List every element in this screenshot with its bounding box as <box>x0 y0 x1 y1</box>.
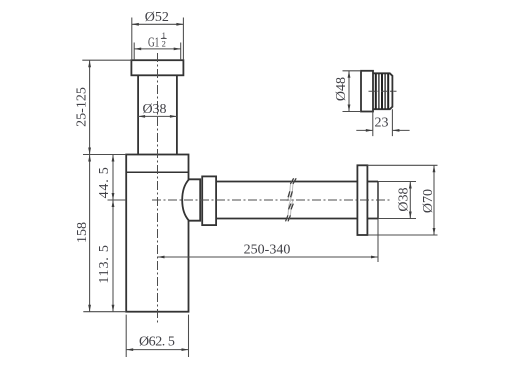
inlet tube ⌀38 left edge <box>137 75 139 154</box>
arrow ⌀38 left <box>138 115 145 118</box>
arrow 23 right <box>392 129 399 132</box>
top flange (nut) of trap <box>131 60 183 75</box>
extension at pipe centerline <box>108 199 127 201</box>
outlet dome <box>182 179 200 220</box>
arrow ⌀38 right <box>170 115 177 118</box>
trap body cup ⌀62.5 <box>126 155 188 312</box>
tailpiece thread outline <box>373 73 392 109</box>
arrow ⌀70 top <box>433 165 436 172</box>
arrow 25-125 top <box>88 60 91 67</box>
thread crest line 3 <box>381 74 383 109</box>
arrow 23 left <box>366 129 373 132</box>
arrow ⌀62.5 right <box>182 348 189 351</box>
pipe break mark lower faint <box>285 200 294 222</box>
svg-text:Ø38: Ø38 <box>396 187 411 211</box>
thread crest line 4 <box>384 74 386 109</box>
extension at body bottom <box>83 311 126 313</box>
pipe break mark upper faint <box>287 179 296 201</box>
arrow ⌀38 right bottom <box>409 212 412 219</box>
dim ⌀70 extension lines <box>367 165 437 235</box>
svg-text:Ø62. 5: Ø62. 5 <box>139 335 175 350</box>
dim G1½ line <box>134 48 181 50</box>
svg-text:25-125: 25-125 <box>75 87 90 127</box>
arrow 250-340 right <box>371 256 378 259</box>
dim ⌀48 extension lines <box>343 71 362 112</box>
pipe break mark lower dark ticks <box>286 204 294 222</box>
arrow 25-125 bottom <box>88 148 91 155</box>
svg-text:158: 158 <box>75 222 90 243</box>
svg-text:Ø52: Ø52 <box>145 10 169 25</box>
dim ⌀48 line <box>348 71 350 112</box>
svg-text:113. 5: 113. 5 <box>97 244 112 283</box>
dim 25-125 extension top <box>82 59 131 61</box>
outlet pipe top edge <box>216 181 357 183</box>
thread crest line 1 <box>375 74 377 109</box>
arrow ⌀70 bottom <box>433 228 436 235</box>
dim ⌀52 extension lines <box>132 18 184 61</box>
inlet tube ⌀38 right edge <box>176 75 178 154</box>
horizontal centerline of outlet pipe <box>152 199 390 201</box>
dim 250-340 line <box>158 256 379 258</box>
arrow 158 bottom <box>88 305 91 312</box>
svg-text:G1: G1 <box>148 35 159 50</box>
arrow 250-340 left <box>158 256 165 259</box>
svg-text:Ø38: Ø38 <box>142 102 166 117</box>
outlet pipe bottom edge <box>216 218 357 220</box>
arrow ⌀38 right top <box>409 182 412 189</box>
pipe stub behind flange bottom <box>367 218 378 220</box>
dim ⌀38 right extension lines <box>378 182 416 219</box>
arrow 44.5 bottom <box>112 193 115 200</box>
arrow ⌀62.5 left <box>126 348 133 351</box>
arrow ⌀48 top <box>348 71 351 78</box>
dim 23 line <box>356 129 409 131</box>
svg-text:250-340: 250-340 <box>244 243 291 258</box>
dim 23 extension lines <box>373 109 393 136</box>
extension at body top <box>83 154 126 156</box>
wall flange ⌀70 <box>357 165 367 235</box>
arrow ⌀52 right <box>176 23 183 26</box>
dim 250-340 right extension <box>377 219 379 263</box>
arrow 113.5 top <box>112 200 115 207</box>
thread crest line 2 <box>378 74 380 109</box>
arrow 44.5 top <box>112 155 115 162</box>
arrow G1½ left <box>134 48 141 51</box>
dim left column line (25-125 and 158) <box>89 60 91 312</box>
arrow ⌀52 left <box>132 23 139 26</box>
tailpiece smooth collar <box>361 71 373 112</box>
svg-text:Ø48: Ø48 <box>334 77 349 101</box>
dim ⌀38 right line <box>409 182 411 219</box>
thread crest line 5 <box>387 74 389 109</box>
arrow 158 top <box>88 155 91 162</box>
fraction bar of G1½ <box>161 38 167 40</box>
svg-text:23: 23 <box>375 116 389 131</box>
dim ⌀38 inlet line <box>138 115 177 117</box>
dim ⌀62.5 extension lines <box>126 315 188 357</box>
dim ⌀52 line <box>132 23 184 25</box>
pipe end cap <box>377 182 379 219</box>
body flange line <box>126 171 188 173</box>
pipe stub behind flange top <box>367 181 378 183</box>
dim ⌀70 line <box>433 165 435 235</box>
dim 44.5/113.5 column line <box>112 155 114 312</box>
svg-text:Ø70: Ø70 <box>421 189 436 213</box>
dim ⌀62.5 line <box>126 349 188 351</box>
vertical centerline of trap body <box>157 53 159 323</box>
outlet nut <box>202 176 216 225</box>
svg-text:44. 5: 44. 5 <box>97 166 112 198</box>
svg-text:2: 2 <box>162 38 166 48</box>
arrows <box>88 23 435 351</box>
arrow G1½ right <box>174 48 181 51</box>
arrow ⌀48 bottom <box>348 105 351 112</box>
tailpiece centerline <box>369 90 397 92</box>
dim G1½ extension lines <box>134 43 181 61</box>
pipe break mark upper dark ticks <box>288 178 296 197</box>
arrow 113.5 bottom <box>112 305 115 312</box>
